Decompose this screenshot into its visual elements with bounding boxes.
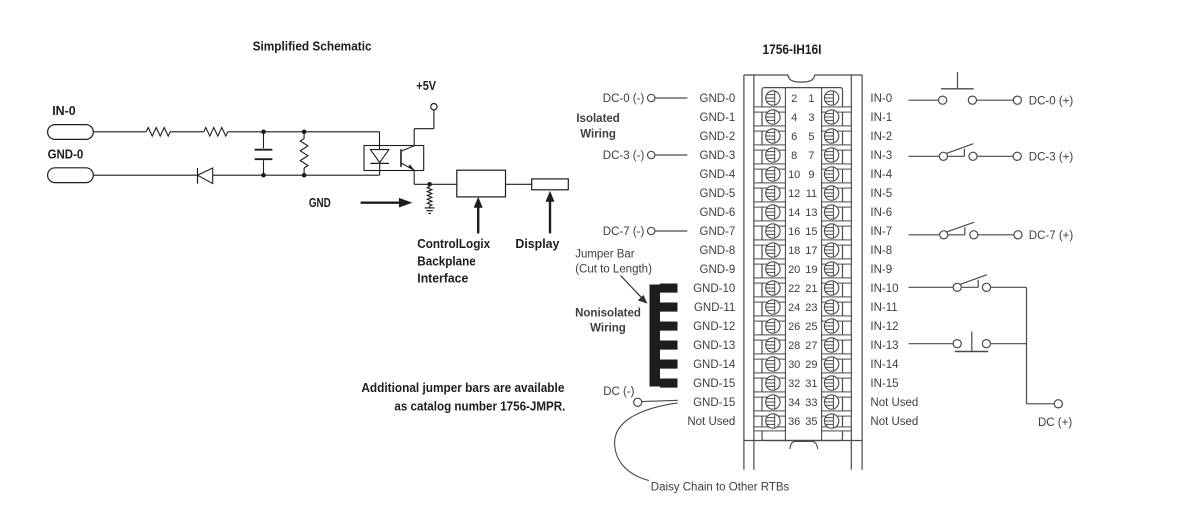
svg-text:DC-0 (-): DC-0 (-) — [603, 93, 645, 105]
svg-text:Not Used: Not Used — [870, 397, 918, 409]
svg-text:20: 20 — [788, 264, 800, 276]
svg-text:DC-7 (-): DC-7 (-) — [603, 226, 645, 238]
svg-text:IN-6: IN-6 — [870, 207, 892, 219]
svg-text:IN-1: IN-1 — [870, 112, 892, 124]
svg-text:2: 2 — [791, 93, 797, 105]
svg-text:23: 23 — [805, 302, 817, 314]
svg-text:12: 12 — [788, 188, 800, 200]
svg-text:GND-10: GND-10 — [693, 283, 735, 295]
svg-text:GND: GND — [309, 196, 331, 210]
svg-text:GND-2: GND-2 — [700, 131, 736, 143]
svg-text:GND-8: GND-8 — [700, 245, 736, 257]
svg-text:17: 17 — [805, 245, 817, 257]
svg-text:GND-15: GND-15 — [693, 397, 735, 409]
svg-text:GND-3: GND-3 — [700, 150, 736, 162]
svg-text:35: 35 — [805, 416, 817, 428]
svg-text:IN-4: IN-4 — [870, 169, 892, 181]
svg-text:IN-13: IN-13 — [870, 340, 898, 352]
svg-text:IN-8: IN-8 — [870, 245, 892, 257]
svg-text:32: 32 — [788, 378, 800, 390]
svg-text:GND-14: GND-14 — [693, 359, 736, 371]
svg-text:36: 36 — [788, 416, 800, 428]
svg-text:29: 29 — [805, 359, 817, 371]
svg-text:GND-0: GND-0 — [700, 93, 736, 105]
svg-text:ControlLogix: ControlLogix — [417, 237, 490, 251]
svg-text:Additional jumper bars are ava: Additional jumper bars are available — [361, 381, 564, 395]
svg-text:DC-3 (-): DC-3 (-) — [603, 150, 645, 162]
svg-text:IN-0: IN-0 — [52, 104, 76, 118]
svg-text:GND-11: GND-11 — [694, 302, 735, 314]
svg-text:GND-9: GND-9 — [700, 264, 736, 276]
svg-text:Jumper Bar: Jumper Bar — [575, 248, 635, 260]
svg-text:GND-1: GND-1 — [700, 112, 736, 124]
svg-text:as catalog number 1756-JMPR.: as catalog number 1756-JMPR. — [394, 400, 565, 414]
svg-text:DC-7 (+): DC-7 (+) — [1029, 230, 1074, 242]
svg-text:DC (+): DC (+) — [1038, 417, 1072, 429]
svg-text:26: 26 — [788, 321, 800, 333]
svg-text:IN-11: IN-11 — [870, 302, 897, 314]
svg-text:30: 30 — [788, 359, 800, 371]
svg-text:(Cut to Length): (Cut to Length) — [575, 264, 652, 276]
svg-text:27: 27 — [805, 340, 817, 352]
svg-text:8: 8 — [791, 150, 797, 162]
svg-text:3: 3 — [808, 112, 814, 124]
svg-text:22: 22 — [788, 283, 800, 295]
svg-text:16: 16 — [788, 226, 800, 238]
svg-text:Nonisolated: Nonisolated — [575, 307, 641, 319]
svg-text:7: 7 — [808, 150, 814, 162]
svg-text:Interface: Interface — [417, 272, 468, 286]
svg-text:GND-12: GND-12 — [693, 321, 735, 333]
svg-text:Backplane: Backplane — [417, 254, 475, 268]
svg-text:1756-IH16I: 1756-IH16I — [763, 41, 822, 57]
svg-text:14: 14 — [788, 207, 800, 219]
svg-text:Isolated: Isolated — [576, 113, 619, 125]
svg-text:5: 5 — [808, 131, 814, 143]
svg-text:15: 15 — [805, 226, 817, 238]
svg-text:IN-10: IN-10 — [870, 283, 898, 295]
svg-text:DC (-): DC (-) — [603, 386, 634, 398]
svg-text:DC-0 (+): DC-0 (+) — [1029, 95, 1074, 107]
svg-text:GND-0: GND-0 — [48, 147, 84, 161]
svg-text:18: 18 — [788, 245, 800, 257]
svg-text:IN-9: IN-9 — [870, 264, 892, 276]
svg-text:GND-6: GND-6 — [700, 207, 736, 219]
svg-text:Simplified Schematic: Simplified Schematic — [253, 39, 372, 54]
svg-text:IN-3: IN-3 — [870, 150, 892, 162]
svg-text:33: 33 — [805, 397, 817, 409]
svg-text:25: 25 — [805, 321, 817, 333]
svg-text:21: 21 — [805, 283, 817, 295]
svg-text:1: 1 — [808, 93, 814, 105]
svg-text:IN-0: IN-0 — [870, 93, 892, 105]
svg-text:IN-15: IN-15 — [870, 378, 898, 390]
svg-text:IN-14: IN-14 — [870, 359, 899, 371]
svg-text:GND-5: GND-5 — [700, 188, 736, 200]
svg-text:24: 24 — [788, 302, 800, 314]
svg-text:GND-13: GND-13 — [693, 340, 735, 352]
svg-text:Wiring: Wiring — [590, 323, 626, 335]
svg-text:31: 31 — [805, 378, 817, 390]
svg-text:+5V: +5V — [416, 79, 436, 93]
svg-text:GND-7: GND-7 — [700, 226, 736, 238]
svg-text:Display: Display — [515, 237, 559, 251]
svg-text:DC-3 (+): DC-3 (+) — [1029, 152, 1074, 164]
svg-text:11: 11 — [806, 188, 817, 200]
svg-text:GND-4: GND-4 — [700, 169, 736, 181]
svg-text:19: 19 — [805, 264, 817, 276]
svg-text:Not Used: Not Used — [687, 416, 735, 428]
svg-text:6: 6 — [791, 131, 797, 143]
svg-text:28: 28 — [788, 340, 800, 352]
svg-text:Daisy Chain to Other RTBs: Daisy Chain to Other RTBs — [651, 481, 790, 493]
svg-text:IN-5: IN-5 — [870, 188, 892, 200]
svg-text:IN-7: IN-7 — [870, 226, 892, 238]
svg-text:4: 4 — [791, 112, 797, 124]
svg-text:IN-12: IN-12 — [870, 321, 898, 333]
svg-text:IN-2: IN-2 — [870, 131, 892, 143]
svg-text:13: 13 — [805, 207, 817, 219]
svg-text:34: 34 — [788, 397, 800, 409]
svg-text:GND-15: GND-15 — [693, 378, 735, 390]
svg-text:Not Used: Not Used — [870, 416, 918, 428]
svg-text:9: 9 — [808, 169, 814, 181]
svg-text:Wiring: Wiring — [580, 128, 616, 140]
svg-text:10: 10 — [788, 169, 800, 181]
